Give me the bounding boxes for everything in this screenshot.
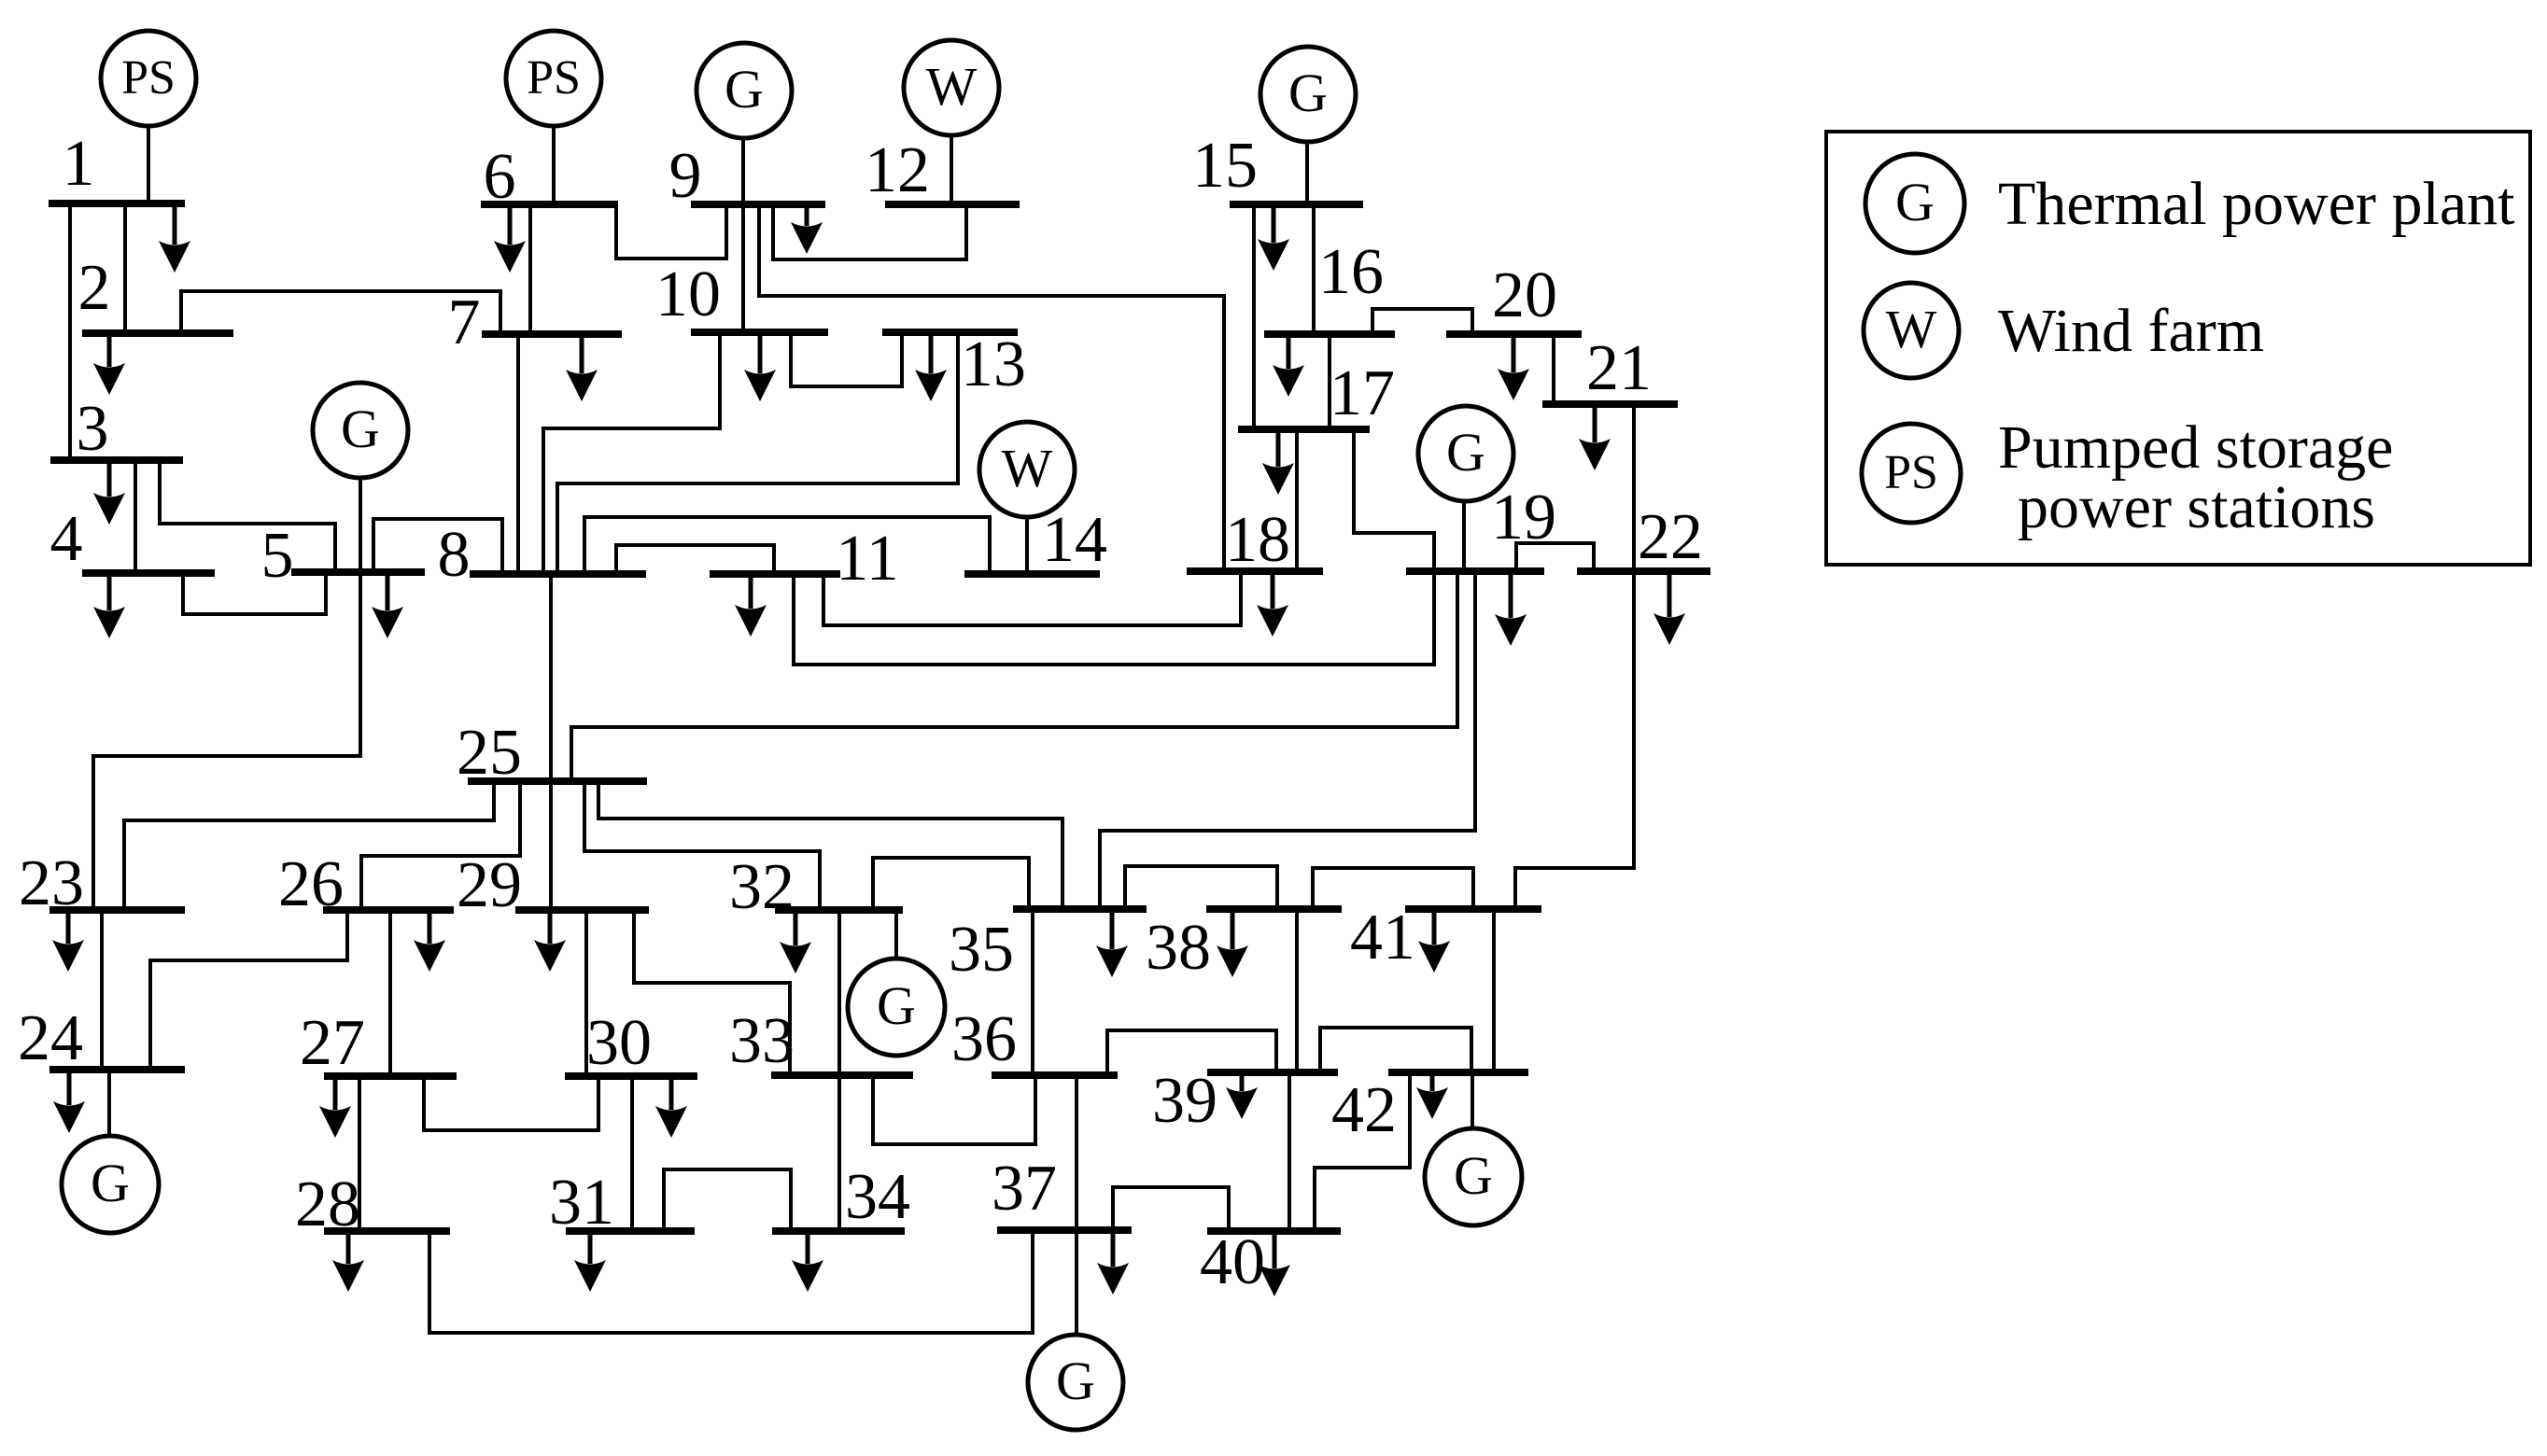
- bus 15: [1230, 201, 1363, 208]
- lead G5-bus5: [359, 478, 362, 572]
- wire 8-10: [543, 332, 720, 574]
- legend symbol G: [1865, 154, 1964, 253]
- wind farm W at bus 14: [979, 422, 1075, 517]
- load arrow bus 5: [372, 572, 403, 638]
- svg-text:15: 15: [1192, 130, 1258, 202]
- svg-text:9: 9: [669, 140, 702, 212]
- wire 9-10: [741, 204, 745, 332]
- svg-text:26: 26: [278, 848, 344, 920]
- wire 8-14: [584, 517, 990, 574]
- load arrow bus 28: [332, 1231, 364, 1292]
- svg-text:42: 42: [1331, 1074, 1397, 1146]
- wire 32-34: [837, 910, 841, 1231]
- load arrow bus 42: [1416, 1072, 1448, 1119]
- svg-text:19: 19: [1491, 482, 1556, 553]
- load arrow bus 2: [93, 333, 125, 395]
- svg-text:PS: PS: [527, 51, 581, 105]
- generator G at bus 15: [1260, 47, 1356, 142]
- svg-text:35: 35: [949, 914, 1014, 986]
- load arrow bus 32: [780, 910, 811, 973]
- bus 9: [691, 201, 825, 208]
- lead G42-bus42: [1471, 1072, 1474, 1128]
- bus 20: [1446, 330, 1582, 338]
- bus 7: [482, 330, 622, 338]
- svg-text:16: 16: [1318, 236, 1384, 308]
- wire 19-22: [1516, 543, 1594, 571]
- svg-text:37: 37: [992, 1153, 1057, 1225]
- wire 19-25: [571, 571, 1457, 781]
- svg-text:27: 27: [300, 1007, 365, 1079]
- wire 10-13: [791, 332, 902, 386]
- legend symbol PS: [1862, 424, 1961, 523]
- svg-text:G: G: [341, 399, 380, 459]
- svg-text:G: G: [1288, 63, 1328, 123]
- wire 27-28: [358, 1076, 361, 1231]
- load arrow bus 38: [1217, 909, 1248, 977]
- wind farm W at bus 12: [904, 40, 999, 135]
- svg-text:G: G: [1895, 172, 1935, 232]
- wire 36-37: [1075, 1075, 1078, 1230]
- load arrow bus 24: [53, 1070, 85, 1133]
- svg-text:21: 21: [1586, 332, 1652, 404]
- svg-text:W: W: [1002, 438, 1053, 498]
- generator G at bus 19: [1418, 406, 1513, 501]
- bus 8: [470, 570, 646, 578]
- svg-text:3: 3: [77, 393, 109, 465]
- load arrow bus 3: [93, 460, 125, 525]
- lead W12-bus12: [950, 135, 953, 204]
- lead G37: [1075, 1230, 1078, 1335]
- generator G at bus 42: [1425, 1128, 1522, 1225]
- wire 16-20: [1372, 309, 1472, 334]
- wire 1-2: [123, 203, 127, 333]
- load arrow bus 15: [1258, 204, 1289, 271]
- wire 15-17: [1252, 204, 1256, 429]
- svg-text:10: 10: [655, 259, 721, 330]
- bus 31: [566, 1227, 695, 1235]
- generator G at bus 9: [697, 43, 792, 138]
- wire 3-4: [134, 460, 137, 573]
- wire 16-17: [1328, 334, 1331, 429]
- svg-text:29: 29: [457, 849, 522, 921]
- wire 9-18: [759, 204, 1224, 571]
- wire 17-18: [1295, 429, 1299, 571]
- svg-text:30: 30: [586, 1007, 652, 1079]
- wire 39-40: [1288, 1072, 1291, 1231]
- wire 35-36: [1031, 909, 1034, 1075]
- wire 39-42: [1320, 1028, 1471, 1072]
- legend symbol W: [1864, 283, 1959, 378]
- svg-text:4: 4: [50, 503, 83, 575]
- svg-text:32: 32: [729, 851, 795, 923]
- legend box: [1826, 132, 2530, 565]
- wire 1-3: [68, 203, 72, 460]
- svg-text:38: 38: [1146, 912, 1211, 984]
- bus 25: [468, 777, 647, 785]
- svg-text:14: 14: [1042, 504, 1107, 576]
- wire 5-23: [93, 572, 360, 910]
- bus 28: [324, 1227, 450, 1235]
- svg-text:22: 22: [1638, 501, 1703, 573]
- bus 27: [324, 1072, 457, 1080]
- lead G24-bus24: [107, 1070, 111, 1136]
- load arrow bus 31: [574, 1231, 606, 1292]
- wire 33-36: [873, 1075, 1035, 1144]
- lead PS6-bus6: [552, 126, 556, 204]
- wire 5-8: [373, 519, 502, 574]
- lead G15-bus15: [1305, 142, 1309, 204]
- svg-text:W: W: [926, 56, 978, 117]
- bus 29: [515, 906, 649, 914]
- svg-text:G: G: [725, 59, 764, 119]
- bus 33: [771, 1071, 913, 1079]
- wire 23-24: [100, 910, 104, 1070]
- wire 29-33: [634, 910, 790, 1075]
- load arrow bus 21: [1579, 404, 1611, 470]
- svg-text:20: 20: [1492, 259, 1557, 331]
- wire 3-5: [160, 460, 335, 572]
- svg-text:W: W: [1886, 299, 1937, 359]
- wire 6-7: [528, 204, 532, 334]
- wire 38-41: [1313, 868, 1473, 909]
- wire 7-8: [516, 334, 520, 574]
- wire 24-26: [150, 910, 347, 1070]
- svg-text:13: 13: [961, 329, 1026, 400]
- wire 36-39: [1107, 1030, 1276, 1075]
- wire 41-42: [1492, 909, 1496, 1072]
- wire 28-37: [429, 1230, 1033, 1333]
- load arrow bus 6: [494, 204, 526, 273]
- bus 17: [1238, 426, 1370, 433]
- bus 35: [1013, 905, 1147, 913]
- svg-text:G: G: [1056, 1351, 1095, 1411]
- wire 21-22-41: [1515, 404, 1634, 909]
- wire 8-13: [557, 332, 958, 574]
- pumped-storage PS at bus 1: [101, 31, 196, 126]
- bus 40: [1207, 1227, 1341, 1235]
- bus 30: [565, 1072, 697, 1080]
- load arrow bus 18: [1257, 571, 1288, 637]
- svg-text:power stations: power stations: [2018, 473, 2375, 541]
- svg-text:Thermal power plant: Thermal power plant: [1998, 170, 2514, 238]
- wire 8-25-29: [549, 574, 553, 910]
- bus 39: [1207, 1069, 1338, 1076]
- wire 6-9: [616, 204, 726, 259]
- svg-text:25: 25: [457, 717, 522, 789]
- svg-text:33: 33: [729, 1005, 795, 1077]
- svg-text:40: 40: [1200, 1226, 1265, 1298]
- svg-text:18: 18: [1225, 504, 1290, 576]
- load arrow bus 11: [735, 574, 767, 637]
- load arrow bus 26: [414, 910, 445, 972]
- svg-text:39: 39: [1152, 1065, 1217, 1137]
- bus 34: [772, 1227, 905, 1235]
- svg-text:17: 17: [1330, 357, 1395, 429]
- wire 17-19: [1354, 429, 1434, 571]
- pumped-storage PS at bus 6: [506, 31, 601, 126]
- wire 29-30: [584, 910, 588, 1076]
- lead W14-bus14: [1025, 517, 1029, 574]
- svg-text:34: 34: [845, 1161, 910, 1233]
- wire 19-35: [1100, 571, 1475, 909]
- bus 13: [882, 329, 1018, 336]
- load arrow bus 17: [1262, 429, 1294, 495]
- bus 22: [1577, 567, 1710, 575]
- load arrow bus 22: [1653, 571, 1685, 645]
- svg-text:28: 28: [295, 1169, 360, 1240]
- svg-text:Wind farm: Wind farm: [1998, 297, 2264, 365]
- wire 35-38: [1125, 866, 1277, 909]
- bus 36: [992, 1071, 1118, 1079]
- bus 14: [964, 570, 1100, 578]
- wire 2-7: [181, 291, 500, 334]
- load arrow bus 9: [791, 204, 823, 254]
- wire 15-16: [1312, 204, 1316, 334]
- load arrow bus 13: [915, 332, 947, 401]
- generator G at bus 35: [848, 959, 945, 1056]
- svg-text:PS: PS: [1884, 446, 1938, 499]
- wire 11-18: [823, 571, 1241, 625]
- load arrow bus 40: [1259, 1231, 1290, 1296]
- bus 5: [291, 568, 425, 576]
- load arrow bus 27: [319, 1076, 351, 1138]
- lead G9-bus9: [741, 138, 745, 204]
- load arrow bus 30: [655, 1076, 687, 1138]
- wire 32-35: [873, 858, 1029, 910]
- bus 21: [1542, 400, 1678, 408]
- svg-text:Pumped storage: Pumped storage: [1998, 413, 2393, 482]
- bus 12: [885, 201, 1020, 208]
- load arrow bus 37: [1097, 1230, 1129, 1295]
- svg-text:31: 31: [549, 1167, 614, 1239]
- bus 4: [82, 569, 215, 577]
- svg-text:5: 5: [261, 520, 294, 592]
- bus 32: [775, 906, 903, 914]
- svg-text:G: G: [877, 975, 916, 1036]
- wire 27-30: [424, 1076, 598, 1130]
- bus 26: [323, 906, 454, 914]
- bus 6: [481, 201, 618, 208]
- load arrow bus 35: [1096, 909, 1128, 977]
- wire 30-31: [630, 1076, 634, 1231]
- load arrow bus 19: [1495, 571, 1527, 646]
- wire 42-40: [1315, 1072, 1410, 1231]
- load arrow bus 1: [159, 203, 190, 273]
- bus 16: [1264, 330, 1395, 338]
- bus 18: [1187, 567, 1323, 575]
- lead G35-bus35: [894, 910, 898, 959]
- svg-text:23: 23: [19, 847, 84, 919]
- bus 19: [1406, 567, 1544, 575]
- wire 25-32: [584, 781, 820, 910]
- wire 31-34: [664, 1169, 791, 1231]
- wire 25-35: [598, 781, 1062, 909]
- svg-text:7: 7: [448, 287, 481, 358]
- wire 4-5: [183, 572, 326, 614]
- load arrow bus 10: [744, 332, 776, 401]
- load arrow bus 20: [1498, 334, 1529, 400]
- load arrow bus 39: [1226, 1072, 1258, 1119]
- bus 37: [997, 1226, 1132, 1234]
- svg-text:2: 2: [78, 252, 111, 324]
- svg-text:11: 11: [836, 523, 898, 595]
- svg-text:1: 1: [63, 128, 95, 200]
- lead G19-bus19: [1462, 501, 1466, 571]
- wire 20-21: [1552, 334, 1555, 404]
- wire 37-40: [1113, 1187, 1229, 1231]
- load arrow bus 16: [1273, 334, 1304, 397]
- bus 2: [82, 329, 233, 337]
- wire 26-27: [388, 910, 392, 1076]
- bus 42: [1388, 1069, 1528, 1076]
- bus 41: [1405, 905, 1541, 913]
- load arrow bus 23: [52, 910, 84, 972]
- svg-text:G: G: [1446, 422, 1485, 483]
- svg-text:8: 8: [438, 519, 471, 591]
- svg-text:G: G: [91, 1153, 130, 1213]
- generator G at bus 24: [62, 1136, 159, 1233]
- svg-text:12: 12: [865, 134, 930, 206]
- bus 23: [49, 906, 185, 914]
- bus 10: [691, 329, 828, 336]
- bus 3: [50, 456, 183, 464]
- bus 1: [49, 200, 185, 207]
- generator G at bus 5: [313, 383, 408, 478]
- svg-text:6: 6: [484, 141, 516, 213]
- svg-text:36: 36: [951, 1003, 1017, 1075]
- bus 38: [1206, 905, 1342, 913]
- svg-text:PS: PS: [121, 51, 176, 105]
- svg-text:G: G: [1454, 1145, 1493, 1206]
- svg-text:24: 24: [18, 1002, 83, 1074]
- generator G at bus 37: [1028, 1335, 1123, 1430]
- wire 25-26: [361, 781, 520, 910]
- wire 8-11: [616, 545, 774, 574]
- bus 24: [49, 1066, 185, 1073]
- wire 9-12: [773, 204, 966, 259]
- load arrow bus 34: [792, 1231, 823, 1292]
- svg-text:41: 41: [1350, 902, 1415, 973]
- load arrow bus 41: [1418, 909, 1450, 973]
- wire 11-19: [794, 571, 1434, 665]
- wire 23-25: [124, 781, 494, 910]
- load arrow bus 29: [534, 910, 566, 972]
- bus 11: [710, 570, 840, 578]
- load arrow bus 7: [566, 334, 598, 401]
- load arrow bus 4: [93, 573, 125, 638]
- lead PS1-bus1: [147, 126, 150, 203]
- wire 38-39: [1295, 909, 1299, 1072]
